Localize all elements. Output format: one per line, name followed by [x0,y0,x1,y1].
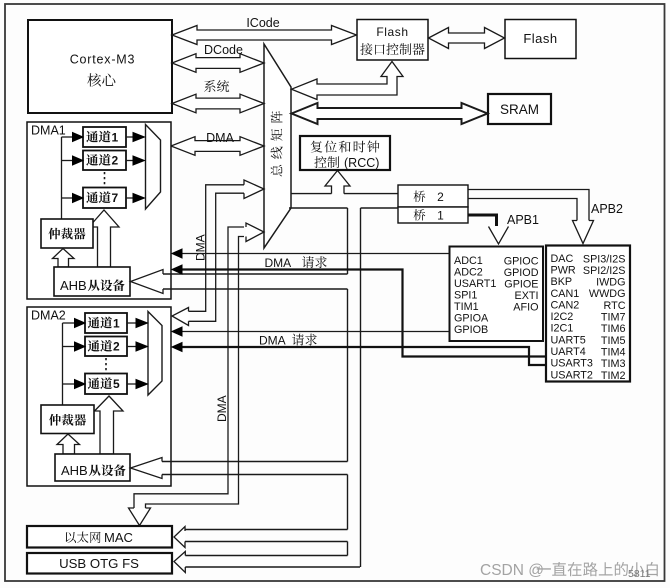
svg-text:DMA: DMA [265,256,292,270]
flash interface to flash arrow [429,28,505,49]
DMA1 bus arrow [171,131,264,155]
svg-text:IWDG: IWDG [596,277,625,289]
svg-text:SPI2/I2S: SPI2/I2S [583,265,626,277]
svg-text:TIM4: TIM4 [601,347,626,359]
svg-text:5811: 5811 [628,568,651,580]
DMA1 channel dots [104,172,106,186]
DMA request wire B to APB2 box [172,265,546,357]
Flash memory box [505,20,576,59]
svg-text:(RCC): (RCC) [344,156,379,170]
DMA1 mux trapezoid [146,125,161,210]
svg-text:I2C2: I2C2 [551,311,574,323]
svg-text:2: 2 [113,340,120,354]
svg-text:5: 5 [113,377,120,391]
svg-text:SRAM: SRAM [500,102,539,117]
bridge 2 box [398,185,468,207]
svg-text:APB1: APB1 [507,213,539,227]
DMA2 mux trapezoid [148,312,162,396]
DMA1 channel 1 box [83,127,126,147]
bus matrix [264,44,291,248]
DMA2 channel 2 box [85,337,127,357]
svg-text:7: 7 [112,191,119,205]
bus matrix to SRAM arrow [292,103,488,124]
arrow into DMA1 AHB slave [131,270,164,294]
svg-text:TIM3: TIM3 [601,358,626,370]
arrow into DMA2 AHB slave [131,458,163,479]
svg-text:DCode: DCode [204,43,243,57]
svg-text:GPIOE: GPIOE [504,279,538,291]
wire bus matrix to bridges [291,193,332,195]
DMA2 channel feed wires with arrows [63,319,86,406]
svg-text:USART2: USART2 [551,369,593,381]
APB2 peripherals box [546,246,630,382]
DMA1 channel 7 box [83,188,126,209]
svg-text:ADC2: ADC2 [454,267,483,279]
DMA vertical label 1 [194,234,208,261]
DMA1 AHB big up arrow [89,210,119,267]
APB1 peripherals box [450,247,544,342]
svg-text:DMA: DMA [259,334,286,348]
DMA2 AHB big up arrow [95,396,124,454]
svg-text:1: 1 [437,209,444,223]
DMA2 AHB slave box [55,454,130,481]
svg-text:AHB: AHB [60,278,87,293]
arrow into USB OTG right [174,552,185,573]
svg-text:DAC: DAC [551,253,574,265]
DMA1 AHB slave box [54,267,130,296]
svg-text:TIM5: TIM5 [601,335,626,347]
ethernet MAC box [27,526,172,548]
svg-text:MAC: MAC [104,530,133,545]
svg-text:I2C1: I2C1 [551,323,574,335]
svg-text:ICode: ICode [246,16,279,30]
svg-text:DMA1: DMA1 [31,124,66,138]
svg-text:PWR: PWR [551,264,576,276]
svg-text:TIM2: TIM2 [601,370,626,382]
svg-text:GPIOC: GPIOC [504,256,539,268]
svg-text:Flash: Flash [523,31,557,46]
DCode bus arrow [172,43,264,72]
svg-text:TIM1: TIM1 [454,301,479,313]
wire flash-interface to bus matrix with up arrow [292,62,404,100]
svg-text:SPI3/I2S: SPI3/I2S [583,253,626,265]
svg-text:2: 2 [437,190,444,204]
svg-text:DMA2: DMA2 [31,309,66,323]
svg-text:2: 2 [112,154,119,168]
ICode bus arrow [172,16,357,45]
DMA1 arbiter up arrow [53,249,75,268]
DMA2 channel to mux arrows [127,319,148,389]
DMA2 channel 1 box [85,313,127,333]
APB1 wire from bridge1 with down arrow [468,215,509,244]
svg-text:Flash: Flash [376,25,408,39]
svg-text:CAN2: CAN2 [551,299,580,311]
svg-text:DMA: DMA [194,234,208,261]
DMA1 channel to mux arrows [126,133,145,203]
USB OTG FS box [27,553,172,574]
DMA2 arbiter up arrow [57,434,80,454]
svg-text:BKP: BKP [551,276,573,288]
svg-text:UART4: UART4 [551,346,586,358]
APB2 wire from bridge2 with down arrow [468,190,594,244]
watermark [480,562,658,580]
svg-text:GPIOA: GPIOA [454,313,489,325]
DMA2 arbiter box [41,405,94,434]
svg-text:UART5: UART5 [551,334,586,346]
Flash interface controller box [357,20,428,61]
Cortex-M3 core box [28,20,172,113]
svg-text:CSDN @: CSDN @ [480,562,544,579]
svg-text:WWDG: WWDG [589,288,626,300]
svg-text:Cortex-M3: Cortex-M3 [70,53,136,67]
RCC up arrow from AHB line [325,171,350,194]
arrow into ethernet MAC right [174,527,185,548]
AHB system wire from bus matrix to slaves [160,208,398,567]
svg-text:USART3: USART3 [551,358,593,370]
svg-text:RTC: RTC [604,300,626,312]
DMA2 channel 5 box [85,374,127,395]
svg-text:APB2: APB2 [591,202,623,216]
wire DMA2 to bus matrix channel [172,180,264,326]
system bus arrow [172,80,264,113]
DMA request wire A to APB1 box [172,249,450,258]
DMA request label 2 [259,334,317,348]
DMA1 controller box [27,122,171,299]
svg-text:ADC1: ADC1 [454,255,483,267]
DMA2 channel dots [105,358,107,372]
svg-text:EXTI: EXTI [515,290,539,302]
svg-text:CAN1: CAN1 [551,288,580,300]
DMA1 channel feed wires with arrows [62,133,84,220]
svg-text:USB OTG FS: USB OTG FS [59,556,139,571]
DMA1 channel 2 box [83,151,126,171]
svg-text:1: 1 [112,130,119,144]
bridge 1 box [398,207,468,223]
DMA request label 1 [265,256,327,270]
svg-text:TIM6: TIM6 [601,323,626,335]
DMA request wire D to APB2 box [172,343,546,366]
DMA vertical label 2 [215,395,229,422]
svg-text:AHB: AHB [61,463,88,478]
svg-text:AFIO: AFIO [513,302,538,314]
svg-text:1: 1 [113,316,120,330]
svg-text:GPIOB: GPIOB [454,324,488,336]
reset and clock control RCC box [300,136,390,170]
svg-text:DMA: DMA [206,131,234,145]
svg-text:USART1: USART1 [454,278,496,290]
svg-text:DMA: DMA [215,395,229,422]
wire bottom peripherals to bus matrix channel [129,223,265,526]
SRAM box [488,94,551,124]
DMA request wire C to APB1 box [172,327,450,336]
svg-text:SPI1: SPI1 [454,290,477,302]
svg-text:GPIOD: GPIOD [504,267,539,279]
DMA2 controller box [27,307,171,486]
svg-text:TIM7: TIM7 [601,312,626,324]
DMA1 arbiter box [41,219,93,248]
